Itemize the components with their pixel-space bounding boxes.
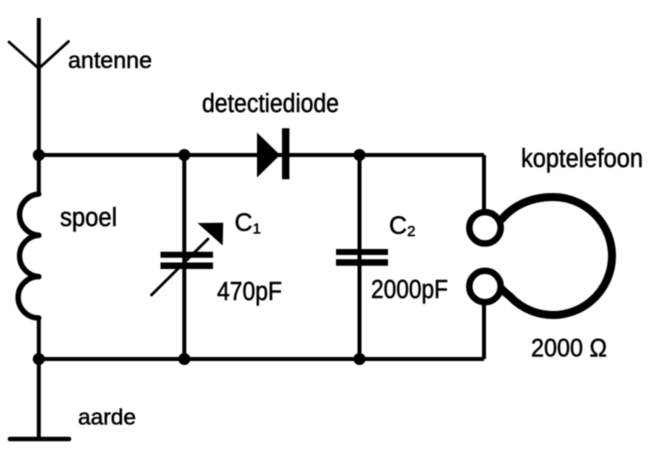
svg-text:2000 Ω: 2000 Ω (531, 335, 607, 363)
svg-text:2000pF: 2000pF (371, 276, 448, 304)
svg-text:antenne: antenne (68, 47, 152, 73)
svg-text:detectiediode: detectiediode (202, 90, 339, 118)
svg-text:aarde: aarde (78, 405, 136, 430)
svg-text:koptelefoon: koptelefoon (521, 145, 643, 173)
svg-text:spoel: spoel (60, 204, 117, 232)
svg-text:470pF: 470pF (217, 278, 282, 306)
